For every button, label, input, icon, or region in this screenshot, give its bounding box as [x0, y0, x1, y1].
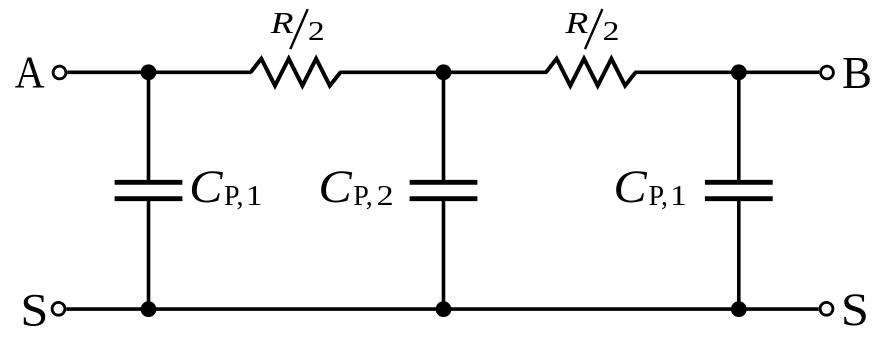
- svg-text:S: S: [20, 285, 48, 337]
- svg-text:P,: P,: [649, 181, 668, 212]
- svg-text:C: C: [613, 161, 647, 213]
- svg-text:P,: P,: [224, 181, 243, 212]
- svg-text:R: R: [269, 5, 293, 40]
- svg-text:R: R: [564, 5, 588, 40]
- svg-text:C: C: [318, 161, 352, 213]
- svg-text:2: 2: [603, 16, 620, 46]
- svg-text:2: 2: [377, 181, 394, 212]
- svg-text:S: S: [841, 284, 869, 336]
- svg-text:C: C: [189, 161, 223, 213]
- svg-text:B: B: [842, 48, 872, 98]
- svg-text:P,: P,: [353, 181, 372, 212]
- svg-text:1: 1: [246, 181, 263, 212]
- svg-text:A: A: [15, 48, 45, 98]
- svg-text:2: 2: [308, 16, 325, 46]
- svg-text:1: 1: [670, 181, 687, 212]
